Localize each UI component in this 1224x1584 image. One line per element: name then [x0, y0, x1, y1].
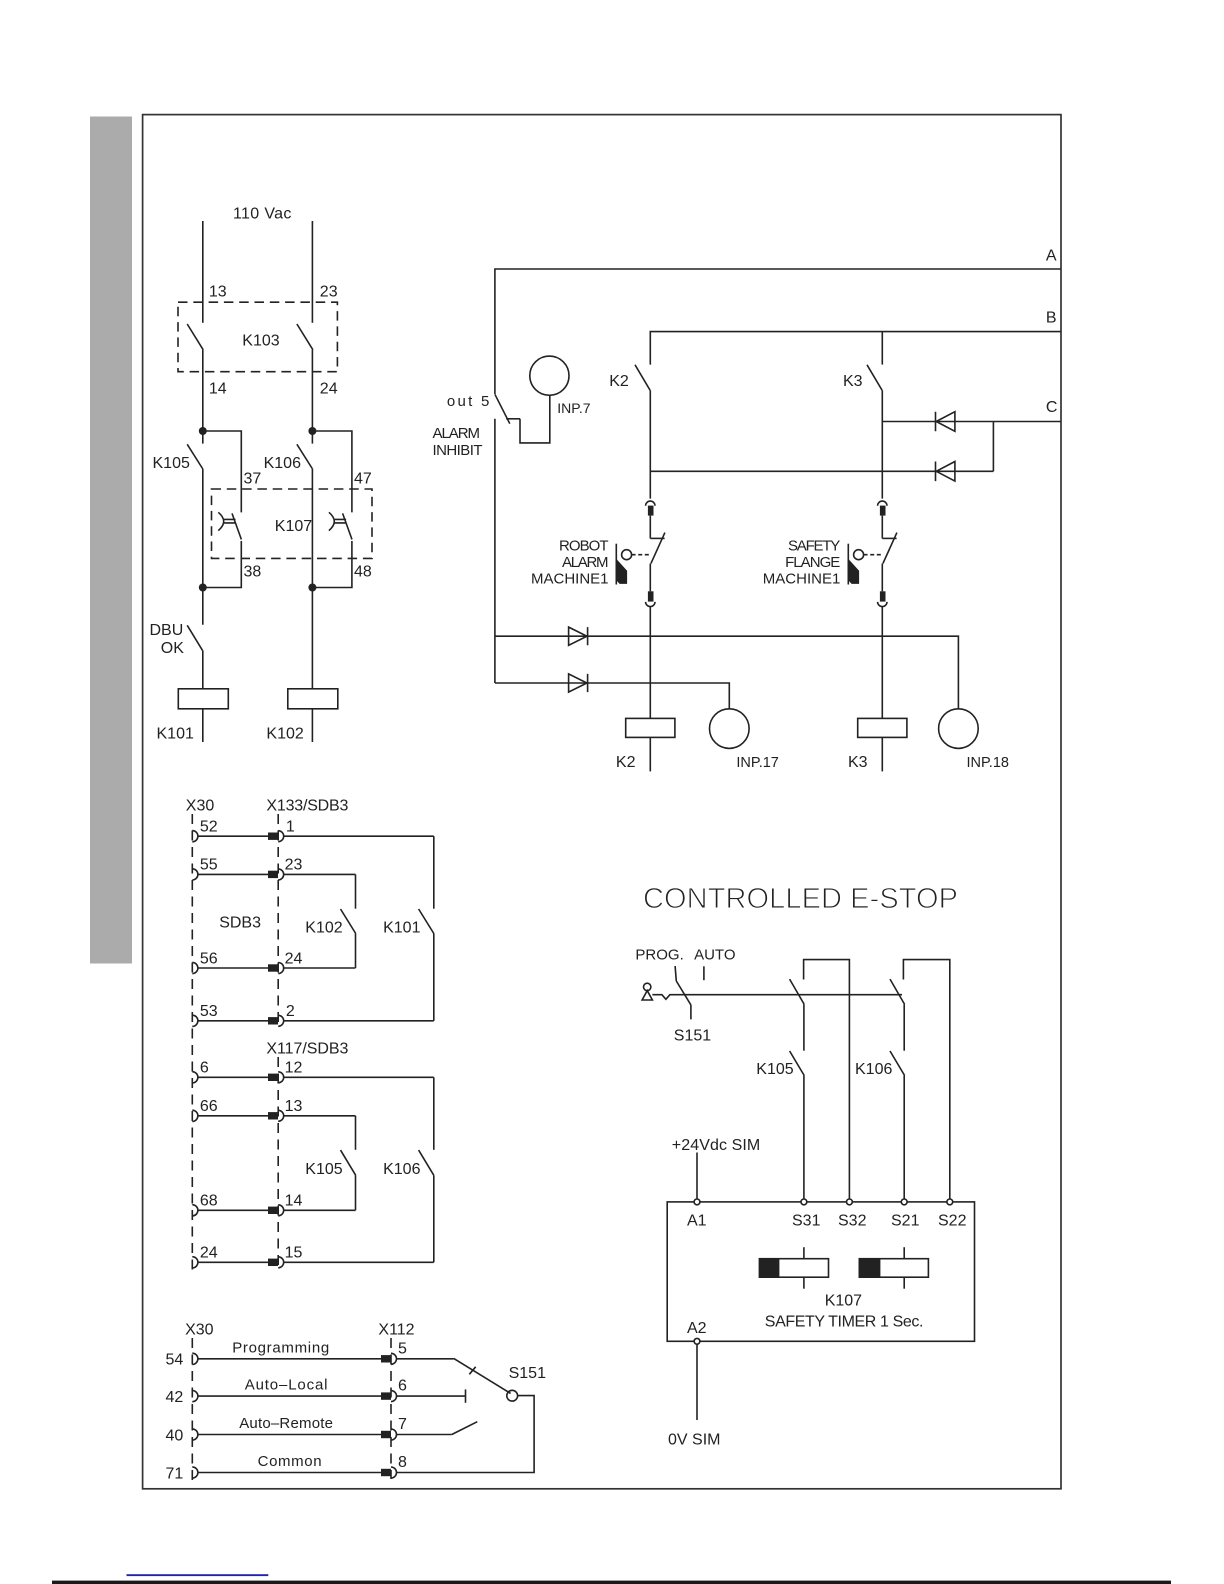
coil K102: [288, 689, 338, 709]
svg-text:INP.18: INP.18: [967, 755, 1009, 771]
svg-text:C: C: [1046, 399, 1058, 416]
svg-text:Programming: Programming: [232, 1339, 329, 1356]
diode D2 (C lower): [936, 462, 955, 482]
svg-text:6: 6: [398, 1378, 407, 1395]
lamp INP.7 circle: [530, 356, 569, 395]
connector plug top K3: [878, 501, 887, 506]
svg-text:INHIBIT: INHIBIT: [433, 442, 483, 459]
svg-text:K106: K106: [264, 455, 301, 472]
svg-text:SDB3: SDB3: [219, 915, 261, 932]
connector X30 dashed line (bottom): [191, 1338, 193, 1480]
wire X133:23: [284, 873, 356, 875]
wire X30:68 to X117:14: [198, 1209, 268, 1211]
svg-text:MACHINE1: MACHINE1: [531, 570, 609, 587]
switch SAFETY FLANGE bar: [847, 544, 849, 585]
contact K3 blade: [867, 365, 882, 391]
terminal X30:6: [192, 1072, 198, 1083]
terminal X117:12: [268, 1074, 278, 1081]
svg-text:S22: S22: [938, 1213, 967, 1230]
footer link underline: [127, 1574, 269, 1576]
coil K101: [178, 689, 228, 709]
svg-text:53: 53: [200, 1003, 218, 1020]
terminal X112:6: [381, 1392, 391, 1399]
wire goalpost left to S32: [804, 960, 850, 1200]
wire X112:6 Auto-Local: [397, 1395, 466, 1397]
terminal X117:13: [268, 1112, 278, 1119]
coil K3: [858, 718, 907, 737]
wire X30:56 to X133:24: [198, 967, 268, 969]
wire goalpost right to S22: [903, 960, 949, 1200]
terminal X133:23: [268, 871, 278, 878]
terminal X30:53: [192, 1015, 198, 1026]
svg-text:X30: X30: [185, 1322, 214, 1339]
terminal X30:68: [192, 1205, 198, 1216]
wire X112:8 Common riser: [397, 1396, 535, 1473]
wire X30:66 to X117:13: [198, 1115, 268, 1117]
wire branch 38: [203, 541, 242, 588]
selector S151 detent tick: [469, 1367, 475, 1375]
contact DBU OK blade: [187, 625, 202, 650]
svg-text:K101: K101: [383, 920, 420, 937]
svg-text:14: 14: [285, 1193, 303, 1210]
switch SAFETY FLANGE blade: [883, 533, 897, 564]
contact K105 blade: [187, 444, 202, 468]
wire A2 to 0V: [696, 1344, 698, 1420]
switch ROBOT ALARM blade: [651, 533, 665, 564]
svg-text:K107: K107: [275, 518, 312, 535]
lamp INP.18 circle: [939, 709, 979, 749]
contact K106 blade (E-stop): [890, 1051, 905, 1076]
svg-text:K103: K103: [242, 333, 279, 350]
svg-text:15: 15: [285, 1245, 303, 1262]
coil K2: [626, 718, 675, 737]
lamp INP.17 circle: [710, 709, 750, 749]
svg-text:AUTO: AUTO: [694, 947, 735, 964]
connector plug top K2: [646, 501, 655, 506]
contact out 5 tick: [506, 418, 520, 420]
svg-text:24: 24: [200, 1245, 218, 1262]
wire K2 branch upper: [649, 391, 651, 499]
svg-text:71: 71: [166, 1465, 184, 1482]
wire R mid: [311, 350, 313, 444]
diode D3: [569, 627, 588, 645]
timer contact indicator left: [803, 1247, 805, 1259]
terminal X112:8: [381, 1469, 391, 1476]
junction dot L2: [199, 584, 207, 592]
wire +24Vdc to A1: [696, 1153, 698, 1200]
selector S151 pivot circle: [507, 1390, 518, 1401]
contact K2 blade: [635, 365, 650, 391]
svg-text:CONTROLLED E-STOP: CONTROLLED E-STOP: [643, 883, 958, 915]
terminal X133:2: [268, 1017, 278, 1024]
wire C lower branch: [650, 470, 993, 472]
svg-text:SAFETY TIMER 1 Sec.: SAFETY TIMER 1 Sec.: [765, 1314, 924, 1331]
wire chain to S21: [903, 1076, 905, 1200]
SEC5: [166, 1322, 547, 1483]
timer contact indicator right: [903, 1247, 905, 1259]
wire X30:55 to X133:23: [198, 873, 268, 875]
wire X133:2: [284, 1020, 434, 1022]
wire plug to switch K3: [881, 516, 883, 539]
svg-text:B: B: [1046, 310, 1057, 327]
connector X30 dashed line: [191, 814, 193, 1270]
svg-text:23: 23: [285, 857, 303, 874]
selector S151 blade (bottom): [454, 1358, 511, 1393]
svg-text:FLANGE: FLANGE: [785, 554, 840, 571]
footer rule: [52, 1581, 1171, 1584]
wire rail lower: [494, 419, 496, 683]
wire C link vertical: [992, 422, 994, 472]
terminal X117:15: [268, 1259, 278, 1266]
wire X117:13: [284, 1115, 356, 1117]
terminal X30:66: [192, 1110, 198, 1121]
svg-text:110 Vac: 110 Vac: [233, 206, 291, 223]
contact K105 (SDB3): [355, 1116, 357, 1150]
svg-text:MACHINE1: MACHINE1: [763, 570, 841, 587]
contact K101 (SDB3): [433, 836, 435, 909]
contact K103 left blade: [187, 324, 203, 350]
terminal X30:55: [192, 869, 198, 880]
SEC3: [186, 798, 434, 1271]
svg-text:PROG.: PROG.: [635, 947, 683, 964]
drawing frame: [143, 115, 1061, 1489]
svg-text:X30: X30: [186, 798, 215, 815]
svg-text:Auto–Local: Auto–Local: [245, 1377, 328, 1394]
svg-text:DBU: DBU: [150, 622, 184, 639]
wire blade to plug K2: [649, 564, 651, 592]
wire below K102: [311, 709, 313, 742]
wire chain to S31: [803, 1076, 805, 1200]
svg-text:K3: K3: [848, 754, 868, 771]
connector X112 dashed line: [390, 1338, 392, 1479]
switch ROBOT ALARM bar: [615, 544, 617, 585]
svg-text:K101: K101: [157, 726, 194, 743]
svg-text:37: 37: [244, 471, 262, 488]
connector plug bottom K2: [648, 591, 654, 601]
terminal X30:42 (bottom): [192, 1391, 198, 1402]
svg-text:+24Vdc SIM: +24Vdc SIM: [672, 1137, 760, 1154]
contact K106 (SDB3): [433, 1077, 435, 1150]
wire chain S31: [803, 1004, 805, 1050]
wire branch 47: [312, 431, 352, 512]
svg-text:52: 52: [200, 819, 218, 836]
wire B: [650, 332, 1061, 365]
svg-text:X112: X112: [378, 1322, 414, 1339]
terminal X117:14: [268, 1207, 278, 1214]
wire X30:24 to X117:15: [198, 1261, 268, 1263]
terminal S32: [847, 1199, 853, 1205]
terminal S21: [901, 1199, 907, 1205]
svg-text:54: 54: [166, 1352, 184, 1369]
wire L top: [202, 221, 204, 323]
wire X117:15: [284, 1261, 434, 1263]
wire X112:5 to S151: [397, 1358, 454, 1360]
svg-text:6: 6: [200, 1060, 209, 1077]
wire branch 37: [203, 431, 242, 512]
svg-text:0V SIM: 0V SIM: [668, 1432, 720, 1449]
wire X30:53 to X133:2: [198, 1020, 268, 1022]
svg-text:K102: K102: [305, 920, 342, 937]
svg-text:8: 8: [398, 1454, 407, 1471]
svg-text:S31: S31: [792, 1213, 821, 1230]
terminal S22: [947, 1199, 953, 1205]
wire blade to plug K3: [881, 564, 883, 592]
wire K3 branch upper: [881, 391, 883, 499]
diode D4: [569, 674, 588, 692]
terminal X30:71 (bottom): [192, 1467, 198, 1478]
switch ROBOT ALARM tick: [650, 537, 664, 539]
connector X117 dashed line: [277, 1057, 279, 1268]
svg-text:23: 23: [320, 284, 338, 301]
svg-text:X133/SDB3: X133/SDB3: [266, 798, 348, 815]
svg-text:A: A: [1046, 248, 1057, 265]
junction dot R2: [308, 584, 316, 592]
terminal X30:54 (bottom): [192, 1353, 198, 1364]
wire below coil K2: [649, 737, 651, 771]
selector alternate blade: [452, 1422, 478, 1435]
svg-text:12: 12: [285, 1060, 303, 1077]
svg-text:38: 38: [244, 564, 262, 581]
wire C upper branch: [882, 421, 993, 423]
gray sidebar: [90, 117, 132, 964]
wire L lower: [202, 469, 204, 625]
svg-text:A1: A1: [687, 1213, 707, 1230]
wire X117:12: [284, 1076, 434, 1078]
svg-text:13: 13: [285, 1098, 303, 1115]
terminal X133:24: [268, 964, 278, 971]
wire X133:24: [284, 967, 356, 969]
selector S151 PROG tick: [675, 966, 676, 981]
svg-text:INP.17: INP.17: [736, 755, 778, 771]
connector X133 dashed line: [277, 814, 279, 1028]
terminal S31: [801, 1199, 807, 1205]
terminal X30:24: [192, 1257, 198, 1268]
switch SAFETY FLANGE dashed link: [864, 554, 882, 556]
terminal X112:7: [381, 1431, 391, 1438]
svg-text:ALARM: ALARM: [562, 554, 609, 571]
svg-text:68: 68: [200, 1193, 218, 1210]
wire X133:1: [284, 835, 434, 837]
svg-text:5: 5: [398, 1340, 407, 1357]
timed contact K107 right: [329, 512, 352, 539]
selector S151 operator icon: [644, 983, 651, 990]
contact K105 blade (E-stop): [790, 1051, 805, 1076]
wire K3 branch from B: [881, 332, 883, 365]
contact K103 right blade: [297, 324, 313, 350]
svg-text:42: 42: [166, 1389, 184, 1406]
svg-text:S151: S151: [674, 1028, 711, 1045]
svg-text:S32: S32: [838, 1213, 867, 1230]
wire switch to coil K3: [881, 607, 883, 719]
switch ROBOT ALARM dashed link: [632, 554, 650, 556]
timer K107 box: [667, 1202, 974, 1341]
svg-text:ROBOT: ROBOT: [559, 538, 609, 555]
svg-text:13: 13: [209, 284, 227, 301]
wire C: [993, 421, 1060, 423]
terminal X30:52: [192, 831, 198, 842]
end tick Auto-Local: [465, 1389, 467, 1402]
svg-text:2: 2: [286, 1003, 295, 1020]
timed contact K107 left: [218, 512, 241, 539]
selector S151 blade: [676, 981, 691, 1005]
wire L mid: [202, 350, 204, 444]
svg-text:S21: S21: [891, 1213, 920, 1230]
svg-text:K102: K102: [266, 726, 303, 743]
svg-text:SAFETY: SAFETY: [788, 538, 840, 555]
svg-text:1: 1: [286, 819, 295, 836]
contact K106 blade: [297, 444, 312, 468]
contact chain S21 blade upper: [890, 979, 905, 1004]
SEC2: [433, 248, 1061, 772]
SEC4: [635, 883, 974, 1449]
wire chain S21: [903, 1004, 905, 1050]
wire diode row 2: [495, 683, 729, 709]
selector S151 AUTO tick: [703, 966, 705, 980]
svg-text:40: 40: [166, 1427, 184, 1444]
selector S151 wire with squiggle: [652, 995, 902, 1000]
svg-text:K105: K105: [756, 1061, 793, 1078]
svg-text:47: 47: [354, 471, 372, 488]
wire X112:7 Auto-Remote: [397, 1434, 452, 1436]
selector S151 tail: [690, 1005, 692, 1020]
connector plug bottom K3: [880, 591, 886, 601]
junction dot R1: [308, 427, 316, 435]
svg-text:66: 66: [200, 1098, 218, 1115]
relay K103 dashed box: [178, 302, 337, 372]
terminal X30:40 (bottom): [192, 1429, 198, 1440]
wire below coil K3: [881, 737, 883, 771]
svg-text:K3: K3: [843, 373, 863, 390]
switch ROBOT ALARM flag: [617, 560, 627, 584]
diode D1 (C upper): [936, 412, 955, 432]
svg-text:out 5: out 5: [447, 393, 490, 410]
svg-text:S151: S151: [509, 1365, 546, 1382]
svg-text:ALARM: ALARM: [433, 425, 481, 442]
svg-text:K107: K107: [825, 1293, 862, 1310]
switch SAFETY FLANGE actuator circle: [854, 550, 864, 560]
wire R lower: [311, 469, 313, 689]
terminal A1: [694, 1199, 700, 1205]
svg-text:K105: K105: [305, 1161, 342, 1178]
wire X117:14: [284, 1209, 356, 1211]
wire A: [495, 269, 1061, 394]
wire to coil K101: [202, 650, 204, 688]
svg-text:7: 7: [398, 1416, 407, 1433]
svg-text:55: 55: [200, 857, 218, 874]
wire R top: [311, 221, 313, 323]
svg-text:A2: A2: [687, 1320, 707, 1337]
contact chain S31 blade upper: [790, 979, 805, 1004]
terminal X112:5: [381, 1355, 391, 1362]
svg-text:56: 56: [200, 950, 218, 967]
svg-text:X117/SDB3: X117/SDB3: [266, 1041, 348, 1058]
terminal X133:1: [268, 833, 278, 840]
switch ROBOT ALARM actuator circle: [622, 550, 632, 560]
wire switch to coil K2: [649, 607, 651, 719]
switch SAFETY FLANGE flag: [849, 560, 859, 584]
junction dot L1: [199, 427, 207, 435]
contact K102 (SDB3): [355, 874, 357, 908]
wire out5 to INP.7: [520, 395, 550, 443]
svg-text:K2: K2: [616, 754, 636, 771]
wire X30:52 to X133:1: [198, 835, 268, 837]
svg-text:24: 24: [285, 950, 303, 967]
svg-text:Auto–Remote: Auto–Remote: [239, 1415, 333, 1432]
switch SAFETY FLANGE tick: [882, 537, 896, 539]
svg-text:K2: K2: [609, 373, 629, 390]
relay K107 dashed box: [212, 489, 373, 558]
wire branch 48: [312, 541, 352, 588]
wire X30:6 to X117:12: [198, 1076, 268, 1078]
wire plug to switch K2: [649, 516, 651, 539]
svg-text:Common: Common: [258, 1453, 322, 1470]
SEC1: [150, 206, 373, 743]
svg-text:INP.7: INP.7: [557, 400, 590, 416]
svg-text:K106: K106: [383, 1161, 420, 1178]
svg-text:48: 48: [354, 564, 372, 581]
svg-text:K106: K106: [855, 1061, 892, 1078]
svg-text:24: 24: [320, 381, 338, 398]
terminal X30:56: [192, 962, 198, 973]
wire below K101: [202, 709, 204, 742]
wire diode row 1: [495, 636, 959, 709]
svg-text:OK: OK: [161, 640, 184, 657]
svg-text:K105: K105: [153, 455, 190, 472]
svg-text:14: 14: [209, 381, 227, 398]
contact out 5 blade: [495, 394, 510, 423]
